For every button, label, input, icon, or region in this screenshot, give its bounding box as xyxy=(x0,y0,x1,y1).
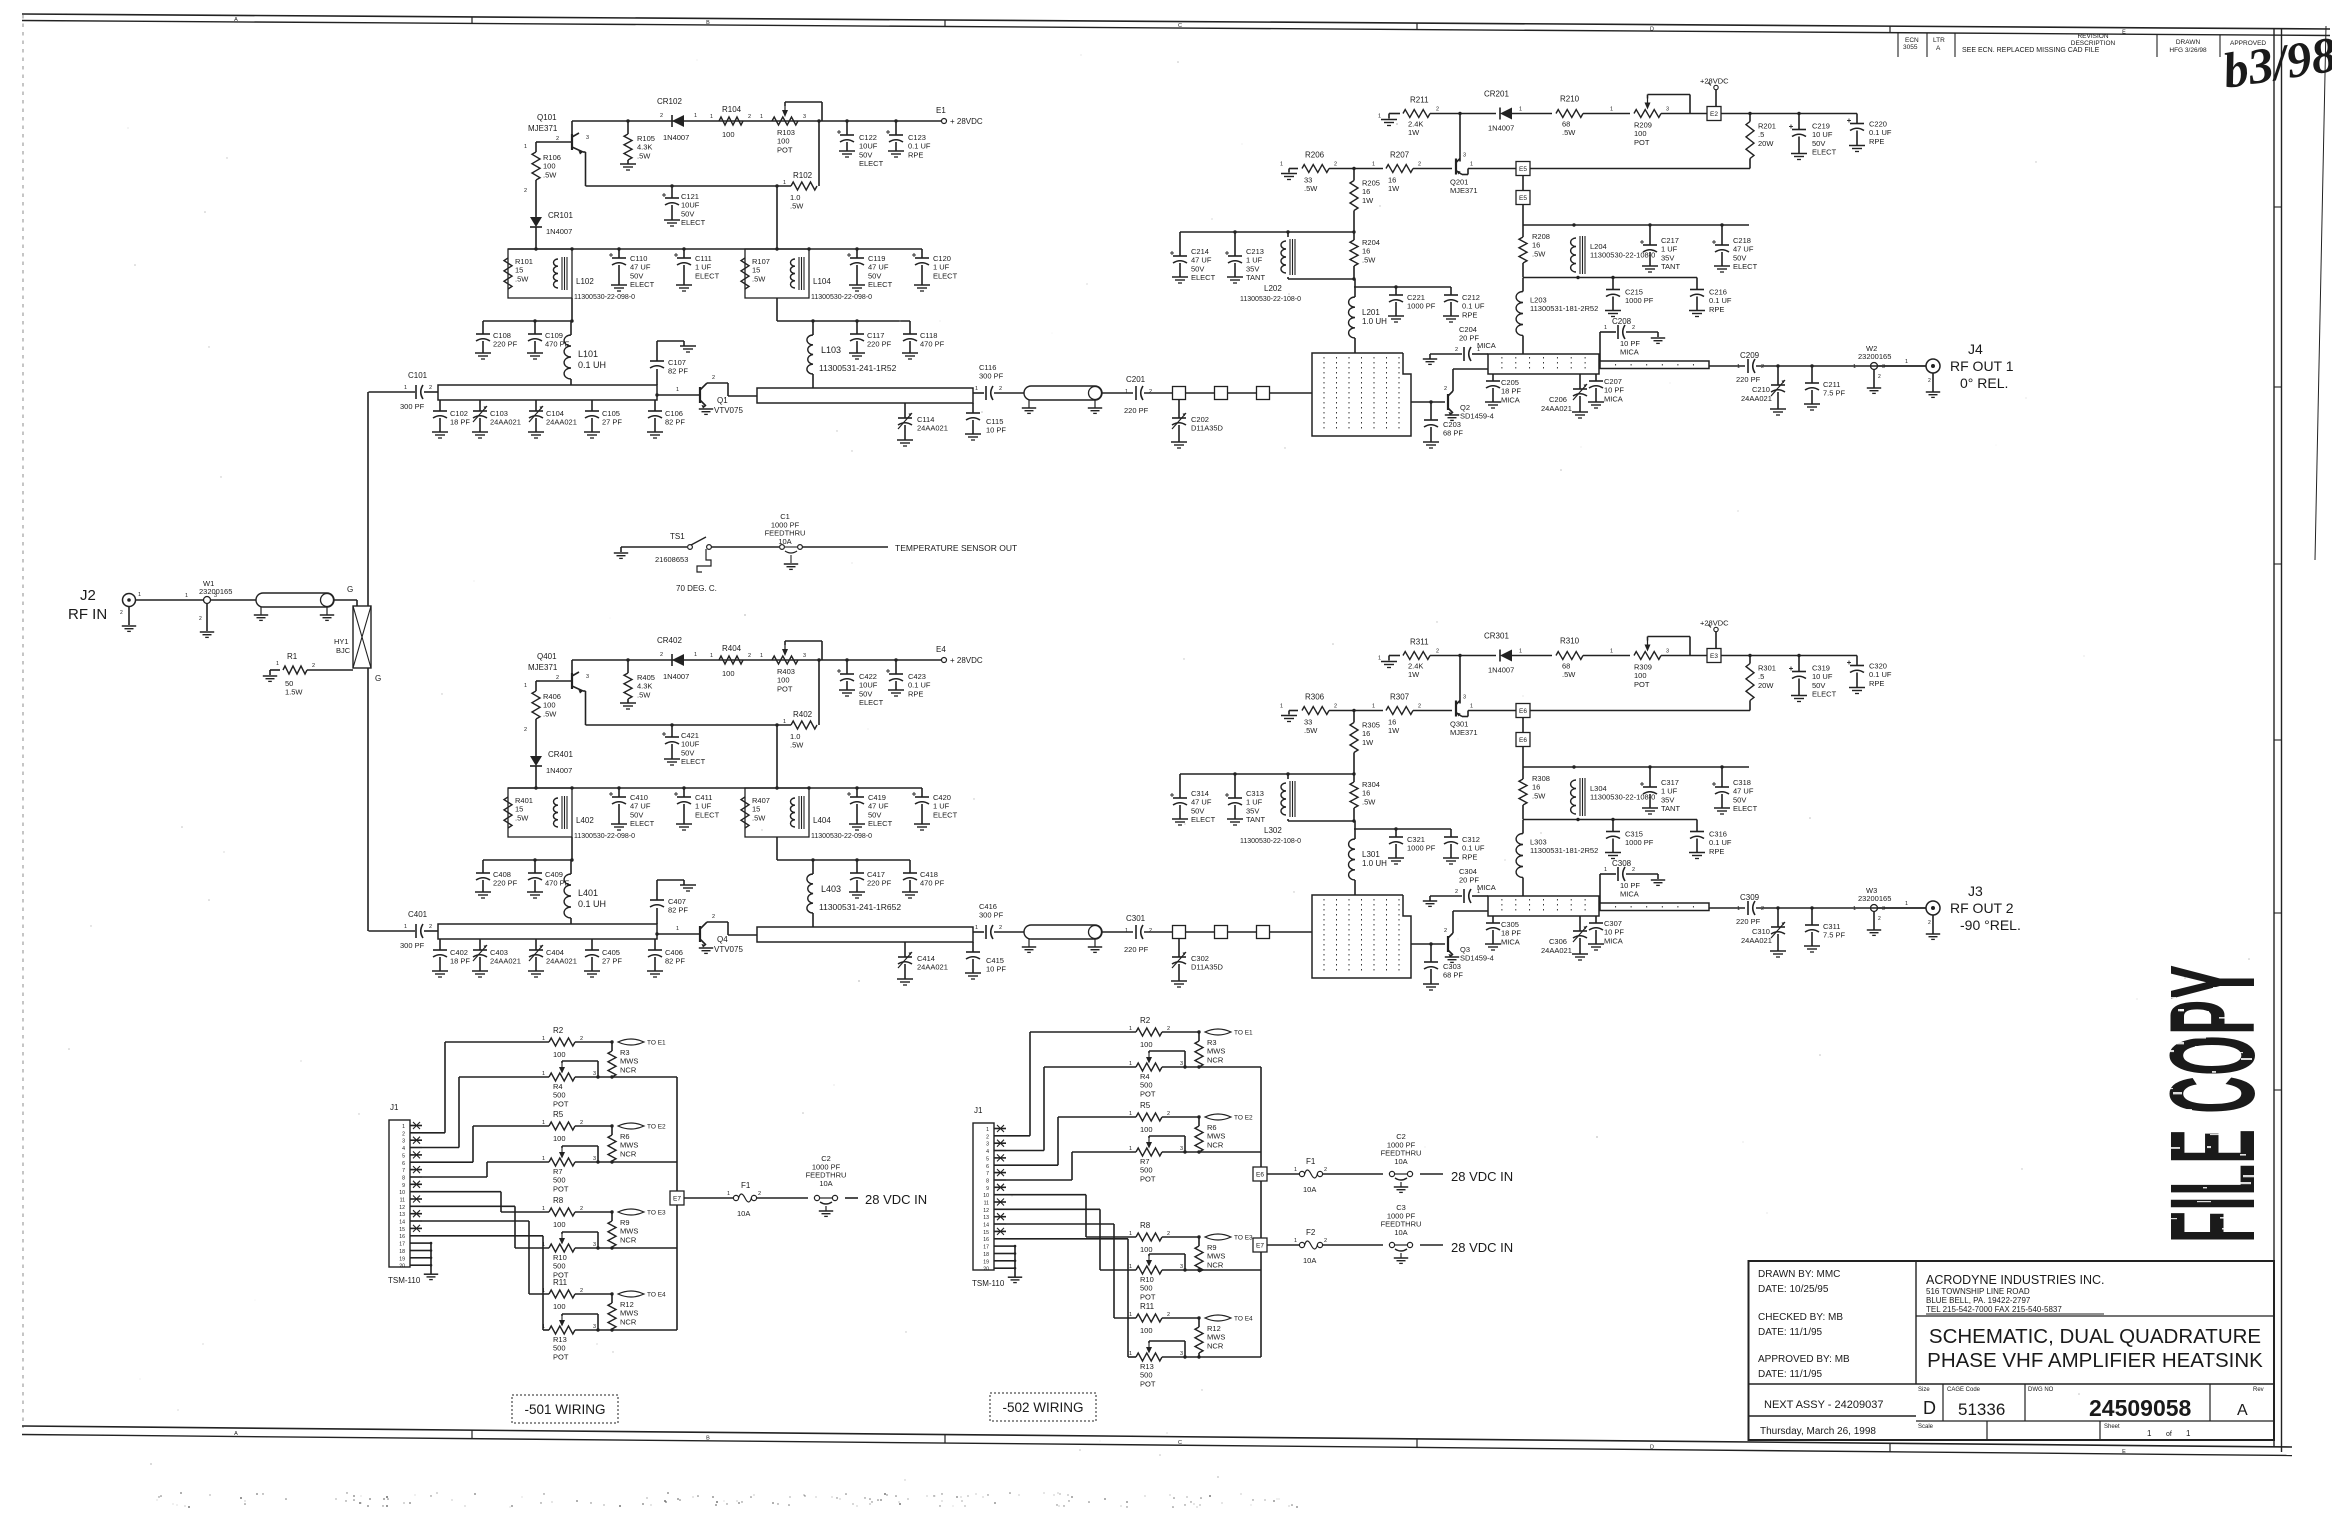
svg-text:DATE: 11/1/95: DATE: 11/1/95 xyxy=(1758,1327,1823,1338)
svg-text:Q3: Q3 xyxy=(1460,945,1470,954)
svg-text:300 PF: 300 PF xyxy=(400,941,425,950)
svg-text:11300530-22-098-0: 11300530-22-098-0 xyxy=(811,294,872,301)
svg-text:ELECT: ELECT xyxy=(933,271,958,280)
svg-text:C407: C407 xyxy=(668,897,686,906)
svg-text:ELECT: ELECT xyxy=(859,159,884,168)
svg-text:1W: 1W xyxy=(1362,196,1374,205)
svg-text:24AA021: 24AA021 xyxy=(1541,404,1572,413)
svg-text:35V: 35V xyxy=(1246,806,1259,815)
svg-text:NCR: NCR xyxy=(620,1317,637,1326)
svg-text:ELECT: ELECT xyxy=(868,819,893,828)
svg-text:1: 1 xyxy=(1905,901,1908,907)
svg-text:100: 100 xyxy=(1140,1326,1153,1335)
svg-text:C321: C321 xyxy=(1407,835,1425,844)
svg-text:4: 4 xyxy=(402,1146,405,1152)
svg-text:300 PF: 300 PF xyxy=(979,911,1004,920)
svg-text:REVISION: REVISION xyxy=(2077,33,2108,40)
svg-text:.5W: .5W xyxy=(543,709,557,718)
svg-text:47 UF: 47 UF xyxy=(1191,798,1212,807)
svg-text:R307: R307 xyxy=(1390,693,1410,702)
svg-text:POT: POT xyxy=(1634,138,1650,147)
svg-text:RPE: RPE xyxy=(1462,310,1477,319)
svg-text:MWS: MWS xyxy=(1207,1132,1225,1141)
svg-text:7: 7 xyxy=(986,1171,989,1177)
svg-text:2: 2 xyxy=(748,653,751,659)
svg-text:100: 100 xyxy=(1634,129,1647,138)
svg-text:7: 7 xyxy=(402,1168,405,1174)
svg-text:1N4007: 1N4007 xyxy=(546,227,572,236)
svg-text:R3: R3 xyxy=(1207,1038,1217,1047)
svg-text:1000 PF: 1000 PF xyxy=(1407,844,1436,853)
svg-text:500: 500 xyxy=(553,1344,566,1353)
svg-text:1: 1 xyxy=(710,653,713,659)
svg-text:R2: R2 xyxy=(1140,1016,1151,1025)
svg-text:2: 2 xyxy=(712,914,715,920)
svg-text:220 PF: 220 PF xyxy=(867,340,892,349)
svg-text:CR301: CR301 xyxy=(1484,632,1509,641)
svg-text:C416: C416 xyxy=(979,902,997,911)
svg-text:1: 1 xyxy=(1378,114,1381,120)
svg-text:Q2: Q2 xyxy=(1460,403,1470,412)
svg-text:35V: 35V xyxy=(1661,253,1674,262)
svg-text:R12: R12 xyxy=(1207,1324,1221,1333)
svg-text:11300530-22-108-0: 11300530-22-108-0 xyxy=(1240,838,1301,845)
svg-text:E: E xyxy=(2122,29,2126,35)
svg-text:MICA: MICA xyxy=(1477,341,1496,350)
svg-text:1: 1 xyxy=(1470,704,1473,710)
svg-text:3: 3 xyxy=(1882,364,1885,370)
svg-text:C410: C410 xyxy=(630,793,648,802)
svg-text:.5W: .5W xyxy=(637,690,651,699)
svg-text:E6: E6 xyxy=(1256,1172,1264,1179)
svg-text:.5W: .5W xyxy=(515,274,529,283)
svg-text:C307: C307 xyxy=(1604,919,1622,928)
svg-text:10UF: 10UF xyxy=(681,740,700,749)
svg-text:1: 1 xyxy=(727,1191,730,1197)
svg-text:16: 16 xyxy=(1362,789,1370,798)
svg-text:RF IN: RF IN xyxy=(68,606,107,623)
svg-text:TEMPERATURE SENSOR OUT: TEMPERATURE SENSOR OUT xyxy=(895,543,1017,553)
svg-text:1: 1 xyxy=(676,387,679,393)
svg-text:1: 1 xyxy=(1129,1264,1132,1270)
svg-text:4.3K: 4.3K xyxy=(637,143,652,152)
svg-text:82 PF: 82 PF xyxy=(668,367,688,376)
svg-text:1.0: 1.0 xyxy=(790,193,800,202)
svg-text:2: 2 xyxy=(986,1134,989,1140)
svg-text:Size: Size xyxy=(1918,1387,1930,1393)
svg-text:DATE: 10/25/95: DATE: 10/25/95 xyxy=(1758,1284,1829,1295)
svg-text:1N4007: 1N4007 xyxy=(663,672,689,681)
svg-text:1: 1 xyxy=(185,593,188,599)
svg-text:1: 1 xyxy=(276,661,279,667)
svg-text:DESCRIPTION: DESCRIPTION xyxy=(2071,40,2116,47)
svg-text:1: 1 xyxy=(1294,1167,1297,1173)
svg-text:1: 1 xyxy=(1853,364,1856,370)
svg-text:C115: C115 xyxy=(986,417,1003,426)
svg-text:C: C xyxy=(1178,1440,1182,1446)
svg-text:L404: L404 xyxy=(813,816,831,825)
svg-text:VTV075: VTV075 xyxy=(714,406,743,415)
svg-text:10 PF: 10 PF xyxy=(986,965,1006,974)
svg-text:1: 1 xyxy=(542,1036,545,1042)
svg-text:1: 1 xyxy=(760,653,763,659)
svg-text:10 UF: 10 UF xyxy=(1812,130,1833,139)
svg-text:1: 1 xyxy=(1519,107,1522,113)
svg-text:7.5 PF: 7.5 PF xyxy=(1823,931,1846,940)
svg-text:R301: R301 xyxy=(1758,664,1776,673)
svg-text:C405: C405 xyxy=(602,948,620,957)
svg-text:R11: R11 xyxy=(1140,1302,1155,1311)
svg-text:11: 11 xyxy=(984,1201,989,1207)
svg-text:1: 1 xyxy=(1610,649,1613,655)
svg-text:C109: C109 xyxy=(545,331,563,340)
svg-text:24AA021: 24AA021 xyxy=(1741,936,1772,945)
svg-text:2: 2 xyxy=(199,616,202,622)
svg-text:+28VDC: +28VDC xyxy=(1700,77,1729,86)
svg-text:12: 12 xyxy=(399,1205,405,1211)
svg-text:C212: C212 xyxy=(1462,293,1480,302)
svg-text:R204: R204 xyxy=(1362,238,1380,247)
svg-text:C208: C208 xyxy=(1612,317,1632,326)
svg-text:POT: POT xyxy=(1140,1292,1156,1301)
svg-text:47 UF: 47 UF xyxy=(630,802,651,811)
svg-text:ELECT: ELECT xyxy=(1733,262,1758,271)
svg-text:17: 17 xyxy=(983,1245,989,1251)
svg-text:24AA021: 24AA021 xyxy=(546,957,577,966)
svg-text:10 UF: 10 UF xyxy=(1812,672,1833,681)
svg-text:1000 PF: 1000 PF xyxy=(1625,838,1654,847)
svg-text:220 PF: 220 PF xyxy=(1736,917,1761,926)
svg-text:J1: J1 xyxy=(390,1103,399,1112)
svg-text:47 UF: 47 UF xyxy=(868,263,889,272)
svg-text:Q301: Q301 xyxy=(1450,720,1468,729)
svg-text:R402: R402 xyxy=(793,710,813,719)
svg-text:1: 1 xyxy=(1519,649,1522,655)
svg-text:15: 15 xyxy=(983,1230,989,1236)
svg-text:.5W: .5W xyxy=(790,202,804,211)
svg-text:1N4007: 1N4007 xyxy=(663,133,689,142)
svg-text:0.1 UF: 0.1 UF xyxy=(1869,128,1892,137)
svg-text:LTR: LTR xyxy=(1933,37,1945,44)
svg-text:C220: C220 xyxy=(1869,120,1887,129)
svg-text:CAGE Code: CAGE Code xyxy=(1947,1387,1981,1393)
svg-text:10 PF: 10 PF xyxy=(1620,339,1640,348)
svg-text:C421: C421 xyxy=(681,731,699,740)
svg-text:0.1 UF: 0.1 UF xyxy=(1709,296,1732,305)
svg-text:9: 9 xyxy=(402,1183,405,1189)
svg-text:ELECT: ELECT xyxy=(1812,148,1837,157)
svg-text:C215: C215 xyxy=(1625,288,1643,297)
svg-text:1: 1 xyxy=(524,683,527,689)
svg-text:MWS: MWS xyxy=(1207,1047,1225,1056)
svg-text:2: 2 xyxy=(556,675,559,681)
svg-text:3: 3 xyxy=(586,674,589,680)
svg-text:.5W: .5W xyxy=(515,813,529,822)
svg-text:E7: E7 xyxy=(1256,1243,1264,1250)
svg-text:RF OUT 2: RF OUT 2 xyxy=(1950,900,2014,916)
svg-text:100: 100 xyxy=(543,162,556,171)
svg-text:R102: R102 xyxy=(793,171,813,180)
svg-text:MICA: MICA xyxy=(1477,883,1496,892)
svg-text:ELECT: ELECT xyxy=(681,757,706,766)
svg-text:0.1 UH: 0.1 UH xyxy=(578,899,606,909)
svg-text:C404: C404 xyxy=(546,948,564,957)
svg-text:+28VDC: +28VDC xyxy=(1700,619,1729,628)
svg-text:82 PF: 82 PF xyxy=(665,957,685,966)
svg-text:POT: POT xyxy=(553,1352,569,1361)
svg-text:16: 16 xyxy=(1388,718,1396,727)
svg-text:16: 16 xyxy=(1532,241,1540,250)
svg-text:50V: 50V xyxy=(868,810,881,819)
svg-text:1: 1 xyxy=(1294,1238,1297,1244)
svg-text:2: 2 xyxy=(1334,704,1337,710)
svg-text:C101: C101 xyxy=(408,371,428,380)
svg-text:470 PF: 470 PF xyxy=(920,879,945,888)
svg-text:1W: 1W xyxy=(1362,738,1374,747)
svg-text:PHASE VHF AMPLIFIER HEATSINK: PHASE VHF AMPLIFIER HEATSINK xyxy=(1927,1349,2263,1372)
svg-text:50V: 50V xyxy=(859,150,872,159)
svg-text:4: 4 xyxy=(986,1149,989,1155)
svg-text:50V: 50V xyxy=(868,271,881,280)
svg-text:.5W: .5W xyxy=(752,813,766,822)
svg-text:.5W: .5W xyxy=(1562,670,1576,679)
svg-text:C422: C422 xyxy=(859,672,877,681)
svg-text:33: 33 xyxy=(1304,176,1312,185)
svg-text:2: 2 xyxy=(1167,1111,1170,1117)
svg-text:2: 2 xyxy=(1149,928,1152,934)
svg-text:TO E4: TO E4 xyxy=(1234,1316,1253,1323)
svg-text:1W: 1W xyxy=(1408,670,1420,679)
svg-text:10A: 10A xyxy=(737,1209,750,1218)
svg-text:2: 2 xyxy=(1324,1167,1327,1173)
svg-text:R4: R4 xyxy=(553,1082,563,1091)
svg-text:R13: R13 xyxy=(1140,1362,1154,1371)
svg-text:R304: R304 xyxy=(1362,780,1380,789)
svg-text:DRAWN BY: MMC: DRAWN BY: MMC xyxy=(1758,1269,1840,1280)
svg-text:POT: POT xyxy=(553,1099,569,1108)
svg-text:Scale: Scale xyxy=(1918,1424,1934,1430)
svg-text:D: D xyxy=(1650,1444,1654,1450)
svg-text:15: 15 xyxy=(515,266,523,275)
svg-text:1000 PF: 1000 PF xyxy=(1407,302,1436,311)
svg-text:2: 2 xyxy=(1436,107,1439,113)
svg-text:1: 1 xyxy=(404,385,407,391)
svg-text:R3: R3 xyxy=(620,1048,630,1057)
svg-text:33: 33 xyxy=(1304,718,1312,727)
svg-text:50V: 50V xyxy=(1812,681,1825,690)
svg-text:C121: C121 xyxy=(681,192,699,201)
svg-text:C106: C106 xyxy=(665,409,683,418)
svg-text:23200165: 23200165 xyxy=(1858,894,1891,903)
svg-text:3: 3 xyxy=(214,593,217,599)
svg-text:13: 13 xyxy=(983,1215,989,1221)
svg-text:17: 17 xyxy=(399,1242,405,1248)
svg-text:C104: C104 xyxy=(546,409,564,418)
svg-text:C103: C103 xyxy=(490,409,508,418)
svg-text:RPE: RPE xyxy=(1709,847,1724,856)
svg-text:R208: R208 xyxy=(1532,232,1550,241)
svg-text:2: 2 xyxy=(580,1288,583,1294)
svg-text:TANT: TANT xyxy=(1246,273,1265,282)
svg-text:TSM-110: TSM-110 xyxy=(972,1279,1005,1288)
svg-text:220 PF: 220 PF xyxy=(1124,406,1149,415)
svg-text:C320: C320 xyxy=(1869,662,1887,671)
svg-text:1 UF: 1 UF xyxy=(933,263,950,272)
svg-text:C314: C314 xyxy=(1191,789,1209,798)
svg-text:J2: J2 xyxy=(80,587,96,604)
svg-text:2: 2 xyxy=(429,385,432,391)
svg-text:220 PF: 220 PF xyxy=(867,879,892,888)
svg-text:1N4007: 1N4007 xyxy=(1488,666,1514,675)
svg-text:10UF: 10UF xyxy=(859,142,878,151)
svg-text:20: 20 xyxy=(399,1264,405,1270)
svg-text:24509058: 24509058 xyxy=(2089,1395,2192,1421)
svg-text:50: 50 xyxy=(285,679,293,688)
svg-text:14: 14 xyxy=(399,1220,405,1226)
svg-text:50V: 50V xyxy=(630,810,643,819)
svg-text:C105: C105 xyxy=(602,409,620,418)
svg-text:6: 6 xyxy=(402,1161,405,1167)
svg-text:TS1: TS1 xyxy=(670,532,685,541)
svg-text:MJE371: MJE371 xyxy=(1450,186,1478,195)
svg-text:100: 100 xyxy=(1634,671,1647,680)
svg-text:10: 10 xyxy=(399,1190,405,1196)
svg-text:50V: 50V xyxy=(1191,806,1204,815)
svg-text:L101: L101 xyxy=(578,349,598,359)
svg-text:1: 1 xyxy=(1853,906,1856,912)
svg-text:POT: POT xyxy=(777,145,793,154)
svg-text:C221: C221 xyxy=(1407,293,1425,302)
svg-text:1: 1 xyxy=(542,1156,545,1162)
svg-text:2: 2 xyxy=(1167,1231,1170,1237)
svg-text:RPE: RPE xyxy=(1462,852,1477,861)
svg-text:R305: R305 xyxy=(1362,721,1380,730)
svg-text:21608653: 21608653 xyxy=(655,555,688,564)
svg-text:1: 1 xyxy=(1129,1026,1132,1032)
svg-text:24AA021: 24AA021 xyxy=(546,418,577,427)
svg-text:MWS: MWS xyxy=(620,1141,638,1150)
svg-text:C313: C313 xyxy=(1246,789,1264,798)
svg-text:+ 28VDC: + 28VDC xyxy=(950,117,983,126)
svg-text:3: 3 xyxy=(1180,1061,1183,1067)
svg-text:18 PF: 18 PF xyxy=(450,957,470,966)
svg-text:3: 3 xyxy=(1463,153,1466,159)
svg-text:19: 19 xyxy=(399,1256,405,1262)
svg-text:2: 2 xyxy=(1418,162,1421,168)
svg-text:24AA021: 24AA021 xyxy=(1541,946,1572,955)
svg-text:2: 2 xyxy=(580,1206,583,1212)
svg-text:F1: F1 xyxy=(741,1181,751,1190)
svg-text:L104: L104 xyxy=(813,277,831,286)
svg-text:3: 3 xyxy=(986,1142,989,1148)
svg-text:.5W: .5W xyxy=(1304,184,1318,193)
svg-text:8: 8 xyxy=(986,1179,989,1185)
svg-text:C119: C119 xyxy=(868,254,885,263)
svg-text:-90 °REL.: -90 °REL. xyxy=(1960,917,2021,933)
svg-text:24AA021: 24AA021 xyxy=(1741,394,1772,403)
svg-text:L201: L201 xyxy=(1362,308,1380,317)
svg-text:1N4007: 1N4007 xyxy=(1488,124,1514,133)
svg-text:R403: R403 xyxy=(777,667,795,676)
svg-text:1: 1 xyxy=(1280,162,1283,168)
svg-text:R210: R210 xyxy=(1560,95,1580,104)
svg-text:500: 500 xyxy=(553,1262,566,1271)
svg-text:HY1: HY1 xyxy=(334,637,349,646)
svg-text:C415: C415 xyxy=(986,956,1004,965)
svg-text:3: 3 xyxy=(593,1156,596,1162)
svg-text:R407: R407 xyxy=(752,796,770,805)
svg-text:VTV075: VTV075 xyxy=(714,945,743,954)
svg-text:1: 1 xyxy=(138,592,141,598)
svg-text:5: 5 xyxy=(986,1156,989,1162)
svg-text:220 PF: 220 PF xyxy=(493,340,518,349)
svg-text:R405: R405 xyxy=(637,673,655,682)
svg-text:R13: R13 xyxy=(553,1335,567,1344)
svg-text:C317: C317 xyxy=(1661,778,1679,787)
svg-text:C209: C209 xyxy=(1740,351,1760,360)
svg-text:11300530-22-108-0: 11300530-22-108-0 xyxy=(1590,251,1655,260)
svg-text:1: 1 xyxy=(542,1324,545,1330)
svg-text:100: 100 xyxy=(553,1134,566,1143)
svg-text:D: D xyxy=(1650,26,1654,32)
svg-text:R308: R308 xyxy=(1532,774,1550,783)
svg-text:2: 2 xyxy=(556,136,559,142)
svg-text:F2: F2 xyxy=(1306,1228,1316,1237)
svg-text:SEE ECN. REPLACED MISSING CAD: SEE ECN. REPLACED MISSING CAD FILE xyxy=(1962,47,2100,54)
svg-text:1: 1 xyxy=(1378,656,1381,662)
svg-text:3: 3 xyxy=(586,135,589,141)
svg-text:NCR: NCR xyxy=(1207,1260,1224,1269)
svg-text:35V: 35V xyxy=(1661,795,1674,804)
svg-text:C204: C204 xyxy=(1459,325,1477,334)
svg-text:R8: R8 xyxy=(553,1196,564,1205)
svg-text:E3: E3 xyxy=(1710,653,1718,660)
svg-text:1: 1 xyxy=(542,1120,545,1126)
svg-text:20W: 20W xyxy=(1758,139,1774,148)
svg-text:R5: R5 xyxy=(1140,1101,1151,1110)
svg-text:47 UF: 47 UF xyxy=(630,263,651,272)
svg-text:68 PF: 68 PF xyxy=(1443,971,1463,980)
svg-text:18 PF: 18 PF xyxy=(450,418,470,427)
svg-text:R8: R8 xyxy=(1140,1221,1151,1230)
svg-text:1: 1 xyxy=(542,1206,545,1212)
svg-text:R6: R6 xyxy=(1207,1123,1217,1132)
svg-text:Q401: Q401 xyxy=(537,652,557,661)
svg-text:470 PF: 470 PF xyxy=(920,340,945,349)
svg-text:MICA: MICA xyxy=(1501,395,1520,404)
svg-text:1: 1 xyxy=(402,1124,405,1130)
svg-text:1 UF: 1 UF xyxy=(1661,245,1678,254)
svg-text:R209: R209 xyxy=(1634,121,1652,130)
svg-text:C319: C319 xyxy=(1812,664,1830,673)
svg-text:11: 11 xyxy=(400,1198,405,1204)
svg-text:2: 2 xyxy=(429,924,432,930)
svg-text:B: B xyxy=(706,20,710,26)
svg-text:1: 1 xyxy=(710,114,713,120)
svg-text:R309: R309 xyxy=(1634,663,1652,672)
svg-text:ELECT: ELECT xyxy=(859,698,884,707)
svg-text:500: 500 xyxy=(1140,1166,1153,1175)
svg-text:20W: 20W xyxy=(1758,681,1774,690)
svg-text:R207: R207 xyxy=(1390,151,1410,160)
svg-text:A: A xyxy=(234,17,238,23)
svg-text:Q101: Q101 xyxy=(537,113,557,122)
svg-text:1: 1 xyxy=(1604,867,1607,873)
svg-text:50V: 50V xyxy=(1733,253,1746,262)
svg-text:RPE: RPE xyxy=(908,150,923,159)
svg-text:51336: 51336 xyxy=(1958,1400,2005,1419)
svg-text:2: 2 xyxy=(1455,889,1458,895)
